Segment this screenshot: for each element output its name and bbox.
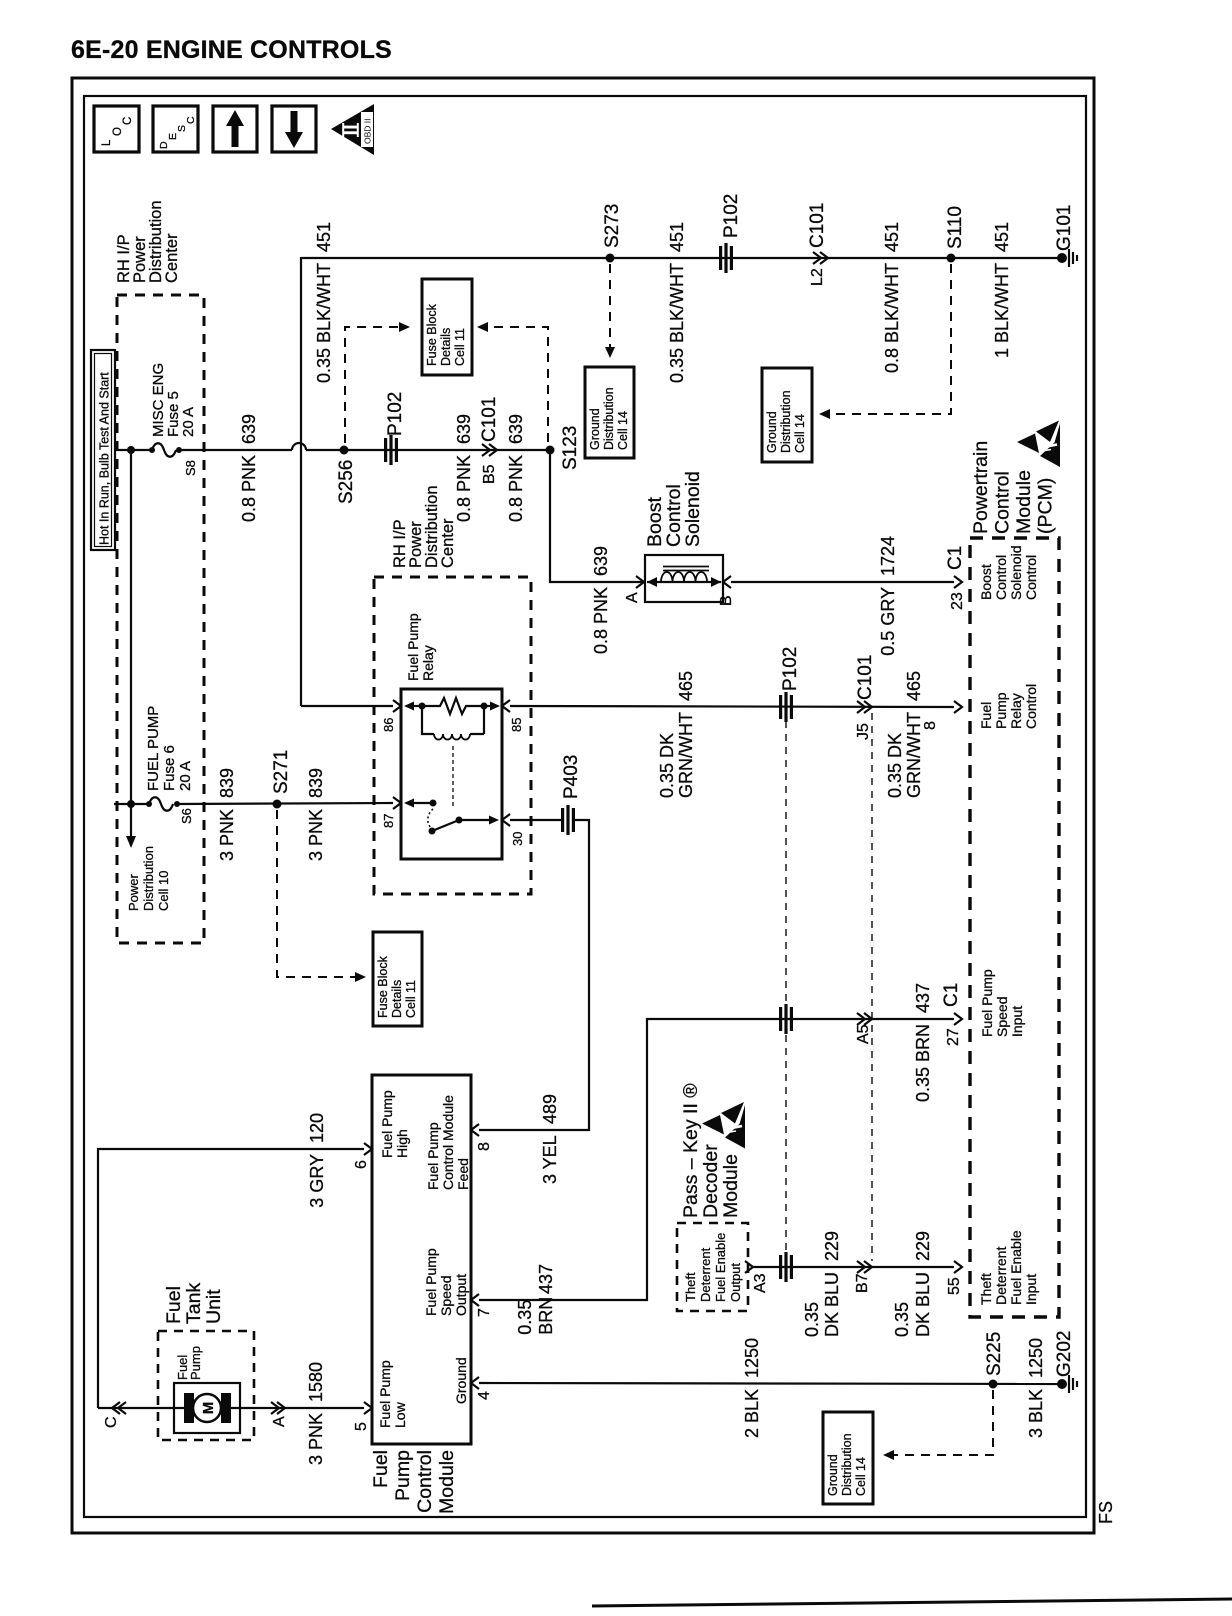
svg-text:Pass – Key II ®: Pass – Key II ® — [680, 1083, 702, 1218]
relay 86 entry arrow — [404, 702, 414, 711]
svg-text:Cell 14: Cell 14 — [854, 1457, 868, 1496]
svg-text:Output: Output — [728, 1263, 743, 1302]
svg-text:P102: P102 — [385, 392, 406, 436]
RH I/P PDC dashed box relay — [374, 577, 531, 894]
wire fuel pump motor — [98, 1407, 364, 1409]
svg-text:Module: Module — [436, 1450, 458, 1514]
svg-text:Decoder: Decoder — [700, 1144, 722, 1218]
connector P102 on 229 wire — [779, 1252, 793, 1282]
svg-text:639: 639 — [506, 414, 526, 444]
terminal 6 — [364, 1143, 372, 1155]
svg-text:C: C — [185, 116, 197, 124]
svg-text:BRN: BRN — [536, 1297, 556, 1335]
svg-text:L2: L2 — [809, 268, 826, 286]
connector A5 C101 — [857, 1013, 865, 1025]
svg-text:Center: Center — [163, 233, 181, 283]
svg-text:465: 465 — [676, 671, 696, 701]
svg-text:30: 30 — [510, 832, 525, 846]
icon up-arrow box — [213, 106, 257, 152]
svg-text:0.35: 0.35 — [892, 1302, 912, 1337]
svg-text:451: 451 — [882, 222, 902, 252]
svg-text:1250: 1250 — [742, 1338, 762, 1378]
svg-text:Pump: Pump — [993, 692, 1009, 729]
relay 87 entry arrow — [404, 799, 414, 808]
Ground Distribution Cell 14 box left — [585, 367, 634, 458]
PCM dashed box — [970, 538, 1059, 1317]
svg-text:Ground: Ground — [588, 408, 602, 450]
relay coil — [422, 706, 434, 734]
svg-text:0.35 BLK/WHT: 0.35 BLK/WHT — [667, 263, 687, 383]
Ground Distribution Cell 14 box lower — [823, 1412, 873, 1504]
svg-text:1580: 1580 — [306, 1362, 326, 1402]
svg-text:23: 23 — [949, 592, 966, 610]
svg-text:DK BLU: DK BLU — [913, 1272, 933, 1337]
svg-text:Fuel Enable: Fuel Enable — [713, 1233, 728, 1302]
RH I/P Power Distribution Center dashed box — [117, 295, 204, 943]
svg-text:C: C — [103, 1416, 120, 1428]
svg-text:451: 451 — [314, 222, 334, 252]
svg-text:1250: 1250 — [1026, 1338, 1046, 1378]
fuse F5 MISC ENG 20A — [149, 447, 155, 453]
svg-text:Control: Control — [992, 471, 1014, 534]
wire FPCM 4 ground 2 BLK 1250 — [479, 1383, 1060, 1384]
svg-text:Unit: Unit — [203, 1289, 225, 1324]
svg-text:7: 7 — [476, 1308, 493, 1317]
svg-text:C101: C101 — [479, 397, 500, 442]
svg-text:S: S — [176, 125, 188, 132]
svg-text:451: 451 — [667, 222, 687, 252]
svg-text:0.8 PNK: 0.8 PNK — [454, 455, 474, 522]
svg-text:3 PNK: 3 PNK — [217, 809, 237, 861]
svg-text:Fuse 6: Fuse 6 — [161, 745, 178, 791]
connector L2 C101 — [813, 252, 821, 264]
fuel pump control module box — [372, 1075, 471, 1444]
fuel tank unit dashed box — [158, 1331, 254, 1440]
riser wire 0.35 BLK/WHT 451 — [300, 257, 302, 706]
svg-text:P403: P403 — [561, 755, 582, 799]
wire riser to relay 86 — [301, 705, 393, 707]
terminal 8 of PCM — [954, 701, 962, 713]
svg-text:Relay: Relay — [1008, 693, 1024, 729]
svg-text:GRN/WHT: GRN/WHT — [676, 712, 696, 798]
wire 0.5 GRY 1724 — [731, 581, 954, 583]
svg-text:C101: C101 — [807, 203, 828, 248]
svg-text:0.35: 0.35 — [515, 1300, 535, 1335]
svg-text:Fuel Pump: Fuel Pump — [379, 1090, 395, 1158]
svg-text:3 YEL: 3 YEL — [540, 1135, 560, 1184]
splice S273 — [606, 254, 615, 263]
svg-text:Deterrent: Deterrent — [698, 1247, 713, 1302]
svg-text:Distribution: Distribution — [840, 1433, 854, 1496]
svg-text:639: 639 — [454, 414, 474, 444]
svg-text:Feed: Feed — [455, 1158, 471, 1190]
svg-text:L: L — [101, 139, 113, 146]
bottom separator line — [592, 1599, 1232, 1606]
svg-text:Cell 11: Cell 11 — [453, 328, 467, 366]
svg-text:O: O — [112, 127, 124, 136]
svg-text:0.35 DK: 0.35 DK — [885, 733, 905, 798]
svg-text:Cell 11: Cell 11 — [404, 980, 418, 1018]
wire 3 PNK 839 — [177, 803, 393, 804]
svg-text:C: C — [122, 117, 134, 125]
svg-text:Fuel Pump: Fuel Pump — [405, 613, 421, 681]
arrow to Power Distribution Cell 10 — [126, 836, 136, 848]
terminal 8 of FPCM — [471, 1124, 479, 1136]
terminal B of boost solenoid — [723, 576, 731, 588]
svg-text:S6: S6 — [179, 808, 194, 824]
fuel pump relay box — [401, 689, 502, 859]
svg-text:Pump: Pump — [392, 1450, 414, 1501]
node junction at fuse feed — [127, 446, 135, 454]
svg-text:3 PNK: 3 PNK — [306, 809, 326, 861]
svg-text:Fuel: Fuel — [370, 1450, 392, 1488]
svg-text:Tank: Tank — [183, 1283, 205, 1324]
terminal A3 — [745, 1261, 753, 1273]
svg-text:A3: A3 — [752, 1273, 769, 1293]
svg-text:437: 437 — [913, 983, 933, 1013]
svg-text:451: 451 — [992, 222, 1012, 252]
Ground Distribution Cell 14 box middle — [762, 368, 812, 462]
svg-text:0.8 PNK: 0.8 PNK — [591, 587, 611, 654]
svg-text:6E-20 ENGINE CONTROLS: 6E-20 ENGINE CONTROLS — [71, 36, 392, 64]
terminal 55 of PCM — [954, 1261, 962, 1273]
svg-text:C1: C1 — [941, 983, 962, 1007]
boost solenoid coil — [661, 572, 707, 582]
svg-text:G202: G202 — [1054, 1331, 1075, 1377]
svg-text:437: 437 — [536, 1264, 556, 1294]
Hot In Run Bulb Test And Start box — [91, 350, 115, 550]
icon OBD II triangle — [331, 104, 374, 155]
svg-text:1 BLK/WHT: 1 BLK/WHT — [992, 263, 1012, 358]
connector P403 — [561, 805, 575, 835]
svg-text:Control: Control — [993, 555, 1009, 600]
svg-text:3 PNK: 3 PNK — [306, 1413, 326, 1465]
svg-text:M: M — [200, 1402, 217, 1415]
ground G101 — [1057, 253, 1067, 263]
connector P102 on 465 wire — [779, 692, 793, 722]
connector P102 on rail — [719, 243, 733, 273]
inner border frame — [84, 96, 1086, 1517]
icon DESC box — [153, 106, 198, 152]
svg-text:Module: Module — [1013, 470, 1035, 534]
relay switch blade — [429, 828, 436, 835]
svg-text:Pump: Pump — [188, 1346, 203, 1380]
svg-text:Input: Input — [1023, 1274, 1039, 1305]
svg-text:B5: B5 — [481, 464, 498, 484]
svg-text:86: 86 — [381, 718, 396, 732]
svg-text:0.8 PNK: 0.8 PNK — [506, 455, 526, 522]
splice S123 — [546, 446, 555, 455]
svg-text:S256: S256 — [336, 460, 357, 504]
svg-text:Low: Low — [392, 1401, 408, 1428]
connector J5 C101 — [857, 701, 865, 713]
terminal 4 — [471, 1377, 479, 1389]
dashed link S273 to Ground Distribution — [609, 264, 611, 348]
svg-text:S110: S110 — [945, 206, 966, 249]
svg-text:FUEL PUMP: FUEL PUMP — [145, 706, 162, 791]
svg-text:0.35 BRN: 0.35 BRN — [913, 1024, 933, 1102]
wire fuse 6 feed — [114, 803, 149, 805]
wire S123 to boost solenoid — [550, 450, 644, 582]
svg-text:Distribution: Distribution — [141, 846, 156, 911]
svg-text:Speed: Speed — [994, 997, 1010, 1037]
wire hop over riser — [292, 443, 306, 450]
svg-text:Fuel Pump: Fuel Pump — [423, 1248, 439, 1316]
connector dashed line C101 — [871, 713, 873, 1261]
boost control solenoid box — [645, 555, 723, 602]
outer border frame — [72, 78, 1094, 1533]
connector P102 on 437 wire — [779, 1004, 793, 1034]
dashed link S256 to Fuse Block Details — [345, 327, 402, 443]
svg-text:4: 4 — [476, 1391, 493, 1400]
svg-text:8: 8 — [922, 721, 939, 730]
svg-text:C101: C101 — [855, 655, 876, 700]
svg-text:B7: B7 — [854, 1273, 871, 1293]
dashed link S271 to Fuse Block Details — [277, 810, 358, 977]
wire FPCM 6 fuel pump high 3 GRY 120 — [98, 1149, 364, 1408]
node junction at fuse 6 — [127, 800, 135, 808]
dashed link S225 to Ground Distribution — [891, 1390, 993, 1455]
svg-text:0.5 GRY: 0.5 GRY — [878, 587, 898, 656]
svg-text:Solenoid: Solenoid — [1008, 546, 1024, 601]
svg-text:55: 55 — [946, 1277, 963, 1295]
svg-text:Relay: Relay — [420, 645, 436, 681]
wire branch down to Power Distribution — [130, 450, 132, 840]
svg-text:C1: C1 — [945, 546, 966, 570]
svg-text:High: High — [394, 1129, 410, 1158]
svg-text:Fuel Pump: Fuel Pump — [425, 1122, 441, 1190]
svg-text:S225: S225 — [984, 1332, 1005, 1376]
svg-text:Fuel: Fuel — [163, 1286, 185, 1324]
svg-text:Fuel Pump: Fuel Pump — [377, 1360, 393, 1428]
svg-text:Control Module: Control Module — [440, 1095, 456, 1190]
svg-text:Cell 14: Cell 14 — [793, 414, 807, 453]
wire FPCM 7 speed output 0.35 BRN 437 — [479, 1019, 954, 1300]
svg-text:85: 85 — [509, 718, 524, 732]
connector B5 C101 — [482, 444, 490, 456]
icon LOC box — [94, 106, 139, 152]
svg-text:489: 489 — [540, 1094, 560, 1124]
svg-text:20 A: 20 A — [177, 761, 194, 791]
svg-text:Details: Details — [439, 328, 453, 366]
svg-text:87: 87 — [381, 814, 396, 828]
svg-text:P102: P102 — [780, 647, 801, 691]
svg-text:GRN/WHT: GRN/WHT — [904, 712, 924, 798]
svg-text:A: A — [271, 1416, 288, 1427]
svg-text:A: A — [624, 592, 641, 603]
svg-text:Ground: Ground — [826, 1454, 840, 1496]
PCM page reference triangles — [1017, 434, 1039, 454]
svg-text:5: 5 — [353, 1422, 370, 1431]
svg-text:6: 6 — [353, 1160, 370, 1169]
svg-text:Theft: Theft — [978, 1273, 994, 1305]
svg-text:Speed: Speed — [438, 1276, 454, 1316]
terminal 85 — [502, 700, 510, 712]
svg-text:P102: P102 — [721, 194, 742, 238]
svg-text:E: E — [167, 133, 179, 140]
svg-text:3 BLK: 3 BLK — [1026, 1389, 1046, 1438]
svg-text:A5: A5 — [855, 1024, 872, 1044]
svg-text:0.8 PNK: 0.8 PNK — [239, 455, 259, 522]
svg-text:Control: Control — [414, 1450, 436, 1513]
svg-text:2 BLK: 2 BLK — [742, 1389, 762, 1438]
svg-text:G101: G101 — [1054, 205, 1075, 251]
svg-text:Fuse Block: Fuse Block — [425, 303, 439, 366]
wire hot feed to fuse 5 — [114, 449, 152, 451]
svg-text:DK BLU: DK BLU — [822, 1272, 842, 1337]
svg-text:D: D — [158, 141, 170, 149]
svg-text:639: 639 — [591, 546, 611, 576]
svg-text:120: 120 — [307, 1113, 327, 1143]
svg-text:S8: S8 — [183, 460, 198, 476]
relay switch throw arc — [428, 809, 433, 828]
svg-text:Fuel Pump: Fuel Pump — [979, 969, 995, 1037]
terminal C of fuel tank unit — [112, 1402, 120, 1414]
dashed link S110 to Ground Distribution — [827, 264, 951, 414]
wire relay 30 to P403 — [510, 819, 561, 821]
svg-text:Boost: Boost — [978, 564, 994, 600]
connector B7 C101 — [857, 1261, 865, 1273]
svg-text:Powertrain: Powertrain — [970, 441, 992, 534]
svg-text:S273: S273 — [602, 204, 623, 248]
terminal 27 C1 of PCM — [954, 1013, 962, 1025]
svg-text:465: 465 — [904, 671, 924, 701]
pass key page reference triangle — [702, 1115, 724, 1135]
ground rail wire 451 — [301, 257, 1062, 259]
svg-text:Cell 10: Cell 10 — [156, 871, 171, 911]
relay actuator dashed link — [452, 746, 454, 808]
terminal A of boost solenoid — [636, 576, 644, 588]
connector P102 on PNK wire — [384, 435, 398, 465]
svg-text:Module: Module — [720, 1154, 742, 1218]
svg-text:Center: Center — [439, 518, 457, 568]
Fuse Block Details Cell 11 box lower — [373, 932, 422, 1026]
svg-text:20 A: 20 A — [180, 407, 197, 437]
svg-text:Fuse Block: Fuse Block — [376, 955, 390, 1018]
svg-text:S123: S123 — [560, 426, 581, 470]
svg-text:Output: Output — [453, 1274, 469, 1316]
svg-text:Ground: Ground — [765, 411, 779, 453]
connector dashed line P102 — [785, 721, 787, 1003]
svg-text:Fuel: Fuel — [978, 702, 994, 729]
splice S110 — [947, 254, 956, 263]
svg-text:Cell 14: Cell 14 — [616, 411, 630, 450]
fuel pump motor M — [184, 1393, 194, 1423]
svg-text:Control: Control — [1023, 555, 1039, 600]
wire 0.8 PNK 639 fuse to S256 — [179, 449, 292, 451]
svg-text:Control: Control — [1023, 684, 1039, 729]
icon down-arrow box — [272, 106, 316, 152]
dashed link Fuse Block Details to S123 — [477, 322, 488, 332]
relay suppression resistor — [422, 698, 484, 714]
svg-text:3 GRY: 3 GRY — [307, 1154, 327, 1208]
svg-text:Theft: Theft — [683, 1272, 698, 1302]
svg-text:27: 27 — [945, 1028, 962, 1046]
terminal 87 — [393, 797, 401, 809]
svg-text:Details: Details — [390, 980, 404, 1018]
terminal 23 C1 of PCM — [954, 576, 962, 588]
wire P403 to FPCM 8 — [479, 820, 589, 1130]
svg-text:J5: J5 — [855, 723, 872, 740]
svg-text:Input: Input — [1009, 1006, 1025, 1037]
splice S271 — [273, 800, 282, 809]
svg-text:229: 229 — [913, 1231, 933, 1261]
svg-text:Fuel Enable: Fuel Enable — [1008, 1230, 1024, 1305]
svg-text:229: 229 — [822, 1231, 842, 1261]
svg-text:B: B — [718, 595, 735, 606]
wire relay 85 to PCM 8 DK GRN/WHT 465 — [510, 706, 954, 707]
svg-text:Distribution: Distribution — [602, 387, 616, 450]
svg-text:839: 839 — [306, 768, 326, 798]
svg-text:0.35 BLK/WHT: 0.35 BLK/WHT — [314, 263, 334, 383]
svg-text:Ground: Ground — [453, 1357, 469, 1404]
terminal 7 — [471, 1294, 479, 1306]
svg-text:Power: Power — [126, 873, 141, 911]
svg-text:FS: FS — [1096, 1501, 1116, 1524]
svg-text:Solenoid: Solenoid — [682, 471, 704, 547]
svg-text:1724: 1724 — [878, 536, 898, 576]
splice S225 — [989, 1380, 998, 1389]
svg-text:Hot In Run, Bulb Test And Star: Hot In Run, Bulb Test And Start — [98, 372, 112, 545]
svg-text:Deterrent: Deterrent — [993, 1247, 1009, 1305]
fuel pump box — [174, 1383, 240, 1433]
svg-text:639: 639 — [239, 414, 259, 444]
svg-text:S271: S271 — [271, 750, 292, 794]
svg-text:0.35: 0.35 — [802, 1302, 822, 1337]
svg-text:0.35 DK: 0.35 DK — [657, 733, 677, 798]
terminal A of fuel tank unit — [271, 1402, 279, 1414]
svg-text:(PCM): (PCM) — [1035, 478, 1057, 534]
terminal 5 — [364, 1402, 372, 1414]
fuse F6 FUEL PUMP 20A — [146, 801, 152, 807]
svg-text:8: 8 — [476, 1142, 493, 1151]
terminal 86 — [393, 700, 401, 712]
svg-text:0.8 BLK/WHT: 0.8 BLK/WHT — [882, 263, 902, 373]
pass key dashed box — [677, 1223, 748, 1311]
svg-text:OBD II: OBD II — [363, 118, 373, 144]
terminal 30 — [502, 814, 510, 826]
relay 30 exit arrow — [459, 819, 489, 821]
ground G202 — [1057, 1379, 1067, 1389]
svg-text:Distribution: Distribution — [779, 390, 793, 453]
Fuse Block Details Cell 11 box top — [422, 279, 472, 375]
splice S256 — [340, 446, 349, 455]
relay 85 exit arrow — [484, 705, 490, 707]
svg-text:839: 839 — [217, 768, 237, 798]
wire theft deterrent 0.35 DK BLU 229 — [753, 1266, 954, 1268]
